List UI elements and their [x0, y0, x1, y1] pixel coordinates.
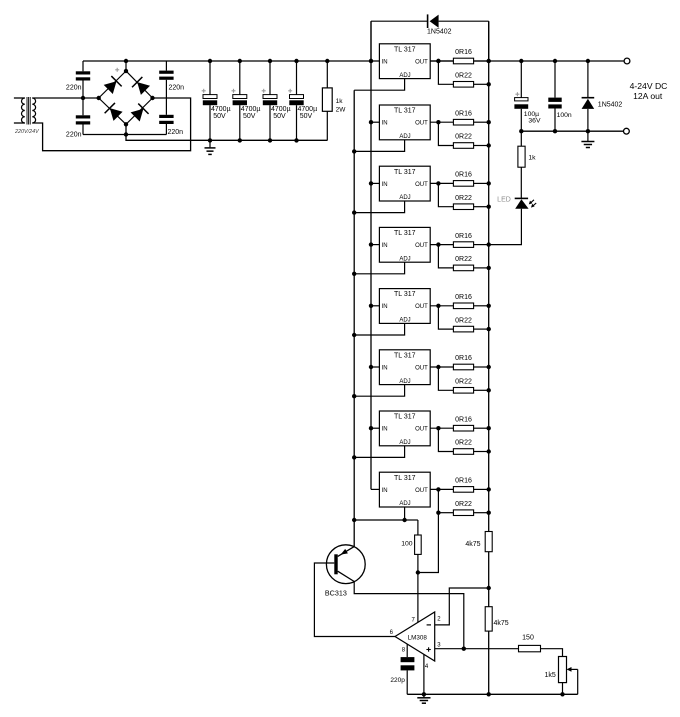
- svg-text:220V/24V: 220V/24V: [14, 129, 40, 135]
- polarity + C8: [288, 90, 292, 92]
- svg-text:TL 317: TL 317: [394, 352, 416, 359]
- svg-text:OUT: OUT: [415, 488, 428, 494]
- resistor 0R16 (stage 7): [453, 425, 473, 431]
- svg-text:1k: 1k: [528, 155, 536, 162]
- wire 220n bottoms to bridge minus: [83, 134, 166, 136]
- resistor 0R22 (stage 1): [453, 82, 473, 88]
- capacitor C3 220n (right top): [159, 61, 173, 98]
- wire 0R22 to bus (stage 5): [474, 328, 489, 330]
- svg-text:IN: IN: [382, 121, 388, 127]
- wire U6 OUT: [430, 366, 453, 368]
- svg-text:0R22: 0R22: [455, 134, 472, 141]
- wire diode loop: [371, 21, 489, 61]
- LED emission arrows: [529, 200, 536, 208]
- polarity + C9: [515, 93, 519, 95]
- svg-text:1N5402: 1N5402: [427, 28, 452, 35]
- svg-text:ADJ: ADJ: [399, 256, 410, 262]
- ground symbol (output): [587, 131, 589, 141]
- svg-text:50V: 50V: [300, 113, 313, 120]
- wire 0R22 to bus (stage 1): [474, 83, 489, 85]
- wire OUT to 0R22 (stage 7): [438, 428, 453, 451]
- wire 0R22 to bus (stage 8): [474, 512, 489, 514]
- svg-text:0R16: 0R16: [455, 355, 472, 362]
- wire OUT bus: [488, 21, 490, 694]
- wire bridge top node to + rail: [125, 61, 127, 71]
- svg-text:0R16: 0R16: [455, 416, 472, 423]
- svg-text:0R16: 0R16: [455, 49, 472, 56]
- resistor R3 100: [415, 520, 422, 573]
- LED D7: [515, 198, 529, 208]
- wire ADJ node to 100R: [405, 519, 418, 521]
- wire U4 OUT: [430, 244, 453, 246]
- wire secondary bottom to bridge right node: [32, 98, 190, 151]
- wire LED cathode to bus: [489, 209, 522, 245]
- svg-text:OUT: OUT: [415, 365, 428, 371]
- svg-text:TL 317: TL 317: [394, 46, 416, 53]
- resistor 0R16 (stage 2): [453, 119, 473, 125]
- diode D1 bridge upper-left: [104, 76, 122, 94]
- junction pin3 node: [462, 647, 466, 651]
- regulator U2 TL317: [379, 105, 430, 140]
- wire 150 to pot: [541, 649, 563, 657]
- capacitor C5 4700u/50V: [203, 61, 217, 140]
- resistor 0R22 (stage 6): [453, 388, 473, 394]
- wire 0R22 to bus (stage 2): [474, 145, 489, 147]
- wire U1 ADJ: [354, 79, 404, 91]
- wire U3 IN: [371, 182, 379, 184]
- wire OUT to 0R22 (stage 5): [438, 306, 453, 329]
- wire 0R16 to bus (stage 6): [474, 366, 489, 368]
- svg-text:50V: 50V: [273, 113, 286, 120]
- svg-text:0R16: 0R16: [455, 233, 472, 240]
- wire U5 IN: [371, 305, 379, 307]
- svg-text:TL 317: TL 317: [394, 291, 416, 298]
- wire OUT to 0R22 (stage 3): [438, 183, 453, 206]
- svg-text:ADJ: ADJ: [399, 134, 410, 140]
- resistor 0R16 (stage 6): [453, 364, 473, 370]
- resistor R2 1k (LED): [518, 131, 525, 198]
- svg-text:1k: 1k: [336, 98, 344, 105]
- svg-text:4700µ: 4700µ: [271, 106, 291, 113]
- regulator U8 TL317: [379, 472, 430, 507]
- svg-text:4700µ: 4700µ: [241, 106, 261, 113]
- resistor 0R22 (stage 3): [453, 204, 473, 210]
- wire 0R16 to bus (stage 3): [474, 182, 489, 184]
- wire output - rail: [521, 130, 623, 132]
- polarity + C7: [262, 90, 266, 92]
- regulator U4 TL317: [379, 227, 430, 262]
- op-amp U9 LM308: [395, 612, 435, 661]
- wire 0R16 to bus (stage 2): [474, 121, 489, 123]
- svg-text:0R22: 0R22: [455, 440, 472, 447]
- wire 0R22 to bus (stage 3): [474, 206, 489, 208]
- wire U2 ADJ: [354, 140, 404, 152]
- regulator U1 TL317: [379, 44, 430, 79]
- svg-text:4-24V DC: 4-24V DC: [630, 81, 668, 91]
- resistor 0R22 (stage 4): [453, 265, 473, 271]
- svg-text:0R16: 0R16: [455, 172, 472, 179]
- svg-text:0R22: 0R22: [455, 379, 472, 386]
- svg-text:ADJ: ADJ: [399, 318, 410, 324]
- resistor 0R16 (stage 3): [453, 181, 473, 187]
- svg-text:ADJ: ADJ: [399, 195, 410, 201]
- junction dots filter rails: [208, 59, 299, 143]
- wire IN bus: [370, 21, 372, 489]
- svg-text:LM308: LM308: [408, 634, 428, 641]
- wire U6 ADJ: [354, 385, 404, 397]
- svg-text:IN: IN: [382, 243, 388, 249]
- svg-text:TL 317: TL 317: [394, 108, 416, 115]
- svg-text:TL 317: TL 317: [394, 475, 416, 482]
- wire secondary top to bridge left node: [32, 97, 98, 99]
- wire U8 ADJ: [354, 507, 404, 520]
- ground symbol (bottom): [423, 694, 425, 697]
- junction dots stage 2: [352, 120, 491, 154]
- svg-text:100: 100: [401, 541, 413, 548]
- resistor R5 4k75 (lower): [485, 607, 492, 631]
- resistor 0R22 (stage 5): [453, 326, 473, 332]
- capacitor C2 220n (left bottom): [76, 98, 90, 135]
- capacitor C7 4700u/50V: [263, 61, 277, 140]
- wire OUT to 0R22 (stage 1): [438, 61, 453, 84]
- svg-text:0R16: 0R16: [455, 294, 472, 301]
- wire 0R22 feed (stage 8): [438, 512, 453, 514]
- wire U7 ADJ: [354, 446, 404, 458]
- junction dots stage 7: [352, 426, 491, 460]
- capacitor C6 4700u/50V: [233, 61, 247, 140]
- capacitor C9 100u/36V: [514, 61, 528, 131]
- wire Q1 base from opamp: [314, 563, 395, 637]
- svg-text:0R22: 0R22: [455, 256, 472, 263]
- polarity + C6: [232, 90, 236, 92]
- svg-text:220n: 220n: [168, 129, 184, 136]
- ground symbol (filter): [209, 140, 211, 147]
- junction 100R bottom: [416, 570, 420, 574]
- wire U2 IN: [371, 121, 379, 123]
- wire OUT stub down (stage 8): [418, 489, 439, 572]
- junction dots output: [369, 59, 590, 134]
- resistor R1 1k 2W: [322, 61, 332, 140]
- resistor 0R22 (stage 7): [453, 449, 473, 455]
- wire + rail (top): [83, 60, 624, 62]
- svg-text:50V: 50V: [213, 113, 226, 120]
- svg-text:TL 317: TL 317: [394, 169, 416, 176]
- output terminal + (circle): [624, 58, 630, 64]
- svg-text:0R16: 0R16: [455, 478, 472, 485]
- wire pin2 feedback: [435, 588, 489, 625]
- resistor 0R16 (stage 5): [453, 303, 473, 309]
- junction dots stage 5: [352, 304, 491, 338]
- wire - rail (filter bottom): [126, 139, 327, 141]
- svg-text:220n: 220n: [66, 132, 82, 139]
- wire Q1 collector to pin3 node: [354, 582, 464, 649]
- wire U6 IN: [371, 366, 379, 368]
- regulator U7 TL317: [379, 411, 430, 446]
- wire U4 IN: [371, 244, 379, 246]
- wire OUT to 0R22 (stage 2): [438, 122, 453, 145]
- wire 0R16 to bus (stage 5): [474, 305, 489, 307]
- svg-text:OUT: OUT: [415, 427, 428, 433]
- resistor R6 150: [519, 645, 541, 651]
- wire ADJ bus: [353, 90, 355, 546]
- wire 0R16 to bus (stage 8): [474, 488, 489, 490]
- capacitor C10 100n: [548, 61, 561, 131]
- svg-text:220p: 220p: [390, 677, 405, 684]
- svg-text:36V: 36V: [528, 118, 541, 125]
- svg-text:IN: IN: [382, 488, 388, 494]
- wire pin3 input: [435, 648, 519, 650]
- diode D2 bridge upper-right: [132, 77, 150, 95]
- junction dots bottom rail: [422, 692, 565, 696]
- wire U3 ADJ: [354, 201, 404, 213]
- junction dots stage 6: [352, 365, 491, 399]
- wire U7 IN: [371, 427, 379, 429]
- junction left node / caps: [81, 96, 85, 100]
- svg-text:150: 150: [522, 635, 534, 642]
- capacitor C11 220p: [401, 657, 415, 694]
- wire U8 IN: [371, 488, 379, 490]
- polarity mark + (bridge output): [115, 69, 119, 71]
- svg-text:IN: IN: [382, 304, 388, 310]
- svg-text:ADJ: ADJ: [399, 379, 410, 385]
- wire OUT to 0R22 (stage 4): [438, 245, 453, 268]
- wire U2 OUT: [430, 121, 453, 123]
- svg-text:2W: 2W: [336, 106, 347, 113]
- svg-text:12A out: 12A out: [633, 91, 663, 101]
- node bridge corners: [97, 59, 155, 137]
- wire 0R22 to bus (stage 7): [474, 451, 489, 453]
- wire 0R16 to bus (stage 1): [474, 60, 489, 62]
- polarity + C5: [202, 90, 206, 92]
- wire U1 OUT: [430, 60, 453, 62]
- svg-text:4k75: 4k75: [494, 620, 509, 627]
- svg-text:LED: LED: [497, 197, 511, 204]
- transistor Q1 BC313: [326, 545, 365, 584]
- wire U5 ADJ: [354, 323, 404, 335]
- svg-text:OUT: OUT: [415, 304, 428, 310]
- capacitor C4 220n (right bottom): [159, 98, 173, 135]
- svg-text:BC313: BC313: [325, 589, 347, 598]
- wire U8 OUT: [430, 488, 453, 490]
- resistor 0R16 (stage 4): [453, 242, 473, 248]
- svg-text:0R22: 0R22: [455, 195, 472, 202]
- wire 0R22 to bus (stage 4): [474, 267, 489, 269]
- diode D6 1N5402 (output clamp): [582, 61, 595, 131]
- resistor 0R22 (stage 2): [453, 143, 473, 149]
- output terminal - (circle): [624, 128, 630, 134]
- svg-text:4700µ: 4700µ: [298, 106, 318, 113]
- svg-text:220n: 220n: [169, 85, 185, 92]
- junction dots stage 3: [352, 181, 491, 215]
- capacitor C8 4700u/50V: [289, 61, 303, 140]
- wire bridge bottom node down: [126, 124, 327, 140]
- svg-text:1N5402: 1N5402: [598, 102, 623, 109]
- transformer T1 220V/24V: [14, 97, 36, 125]
- svg-text:0R22: 0R22: [455, 73, 472, 80]
- pot wiper arrow: [567, 667, 578, 694]
- svg-text:ADJ: ADJ: [399, 73, 410, 79]
- resistor 0R16 (stage 1): [453, 58, 473, 64]
- svg-text:IN: IN: [382, 427, 388, 433]
- wire U3 OUT: [430, 182, 453, 184]
- svg-text:IN: IN: [382, 365, 388, 371]
- resistor 0R16 (stage 8): [453, 487, 473, 493]
- svg-text:OUT: OUT: [415, 59, 428, 65]
- capacitor C1 220n (left top): [76, 61, 90, 98]
- svg-text:0R22: 0R22: [455, 501, 472, 508]
- regulator U5 TL317: [379, 289, 430, 324]
- wire U5 OUT: [430, 305, 453, 307]
- wire 0R16 to bus (stage 4): [474, 244, 489, 246]
- regulator U3 TL317: [379, 166, 430, 201]
- svg-text:IN: IN: [382, 59, 388, 65]
- junction dots stage 8: [352, 487, 491, 522]
- wire U7 OUT: [430, 427, 453, 429]
- svg-text:TL 317: TL 317: [394, 230, 416, 237]
- svg-text:TL 317: TL 317: [394, 414, 416, 421]
- junction R1 top: [325, 59, 329, 63]
- wire U4 ADJ: [354, 262, 404, 274]
- svg-text:ADJ: ADJ: [399, 501, 410, 507]
- bridge diamond wires: [99, 71, 153, 124]
- junction dots stage 4: [352, 242, 491, 276]
- diode D3 bridge lower-left: [105, 103, 123, 121]
- wire 0R22 to bus (stage 6): [474, 389, 489, 391]
- svg-text:OUT: OUT: [415, 121, 428, 127]
- svg-text:0R16: 0R16: [455, 110, 472, 117]
- diode D5 1N5402 (reverse protection): [428, 14, 439, 28]
- svg-text:OUT: OUT: [415, 243, 428, 249]
- svg-text:0R22: 0R22: [455, 317, 472, 324]
- svg-text:1k5: 1k5: [545, 672, 556, 679]
- svg-text:220n: 220n: [66, 85, 82, 92]
- svg-text:100n: 100n: [557, 112, 572, 119]
- svg-text:4k75: 4k75: [465, 541, 480, 548]
- wire OUT to 0R22 (stage 6): [438, 367, 453, 390]
- svg-text:IN: IN: [382, 182, 388, 188]
- svg-text:ADJ: ADJ: [399, 440, 410, 446]
- wire pin4 ground: [423, 654, 425, 694]
- junction feedback node: [487, 586, 491, 590]
- wire pin7 supply: [417, 573, 419, 623]
- potentiometer R7 1k5: [559, 657, 567, 695]
- wire pin8 to 220p: [406, 644, 408, 657]
- svg-text:50V: 50V: [243, 113, 256, 120]
- junction dots stage 1: [369, 59, 491, 87]
- diode D4 bridge lower-right: [131, 104, 149, 122]
- resistor 0R22 (stage 8): [453, 510, 473, 516]
- wire ground rail (bottom): [407, 693, 578, 695]
- svg-text:OUT: OUT: [415, 182, 428, 188]
- svg-text:4700µ: 4700µ: [211, 106, 231, 113]
- regulator U6 TL317: [379, 350, 430, 385]
- wire 0R16 to bus (stage 7): [474, 427, 489, 429]
- resistor R4 4k75 (upper): [485, 532, 492, 552]
